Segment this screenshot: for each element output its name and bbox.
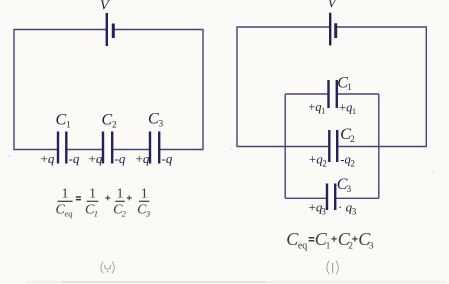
caption (a) right figure [327, 261, 338, 274]
wire: inner left bus (right circuit) [284, 94, 286, 198]
capacitor C1 (left circuit) [58, 132, 66, 164]
svg-text:+q: +q [89, 151, 103, 166]
svg-text:+q: +q [136, 151, 150, 166]
svg-text:V: V [100, 0, 110, 14]
battery V (right circuit) [330, 13, 336, 46]
capacitor C1 (right circuit) [329, 80, 337, 108]
wire: C1 rail (right circuit) [285, 93, 379, 95]
equation 1/Ceq = 1/C1 + 1/C2 + 1/C3 [56, 187, 151, 219]
wire: C3 rail (right circuit) [285, 197, 379, 199]
svg-text:1: 1 [141, 187, 148, 202]
capacitor C3 (right circuit) [327, 184, 335, 211]
capacitor C2 (left circuit) [103, 132, 112, 164]
equation Ceq = C1 + C2 + C3 [286, 229, 373, 252]
svg-text:1: 1 [62, 187, 69, 202]
caption (b) left figure [101, 262, 114, 274]
capacitor C3 (left circuit) [150, 132, 159, 164]
svg-text:1: 1 [89, 187, 96, 202]
svg-text:-q: -q [162, 151, 173, 166]
svg-text:+q: +q [41, 151, 55, 166]
wire: right circuit outer loop [237, 27, 426, 147]
wire: left circuit loop [14, 30, 203, 150]
svg-text:-q: -q [69, 151, 80, 166]
battery V (left circuit) [107, 13, 114, 46]
svg-text:1: 1 [117, 187, 124, 202]
wire: inner right bus (right circuit) [378, 94, 380, 198]
capacitor C2 (right circuit) [329, 130, 337, 162]
svg-text:-q: -q [115, 151, 126, 166]
